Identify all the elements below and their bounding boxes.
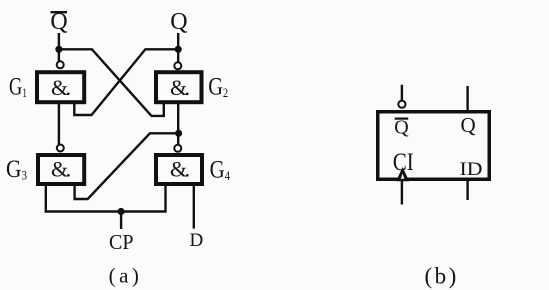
wire U1 Q output [466, 86, 468, 110]
junction dot on Q line [175, 46, 182, 53]
gate G4 output bubble [174, 145, 181, 152]
svg-text:G3: G3 [6, 156, 27, 183]
wire CP net [46, 185, 166, 212]
svg-text:&: & [170, 75, 187, 100]
junction dot on Q-bar line [55, 46, 62, 53]
svg-text:Q: Q [170, 9, 187, 35]
wire CP stub down [120, 212, 122, 230]
svg-text:&: & [170, 157, 187, 182]
gate G4 [156, 155, 202, 184]
wire U1 clock input [401, 181, 403, 205]
junction dot on CP line [118, 208, 125, 215]
svg-text:Q: Q [461, 113, 476, 137]
U1 Q-bar output bubble [398, 101, 405, 108]
gate G2 output bubble [174, 62, 181, 69]
svg-text:&: & [51, 75, 68, 100]
wire Q-bar to G2 input (cross-coupling) [59, 49, 164, 116]
gate G1 output bubble [57, 61, 64, 68]
svg-text:G4: G4 [210, 157, 231, 184]
svg-text:(a): (a) [109, 264, 139, 288]
wire U1 data input [466, 181, 468, 200]
wire U1 Q-bar output [401, 85, 403, 100]
label U1 Q-bar pin [394, 117, 409, 139]
svg-text:D: D [190, 230, 204, 251]
svg-text:CI: CI [393, 149, 414, 176]
wire D input [193, 185, 195, 229]
latch symbol U1 box [378, 112, 490, 180]
svg-text:ID: ID [460, 159, 483, 180]
wire G4 output to G3 input (feedback) [75, 133, 179, 199]
wire Q vertical [177, 33, 179, 62]
node Q-bar label [50, 9, 67, 35]
wire G4 output to G2 input [177, 103, 179, 145]
svg-text:&: & [51, 157, 68, 182]
gate G3 output bubble [57, 145, 64, 152]
gate G2 [156, 72, 202, 102]
svg-text:G1: G1 [9, 74, 27, 101]
gate G3 [38, 155, 84, 184]
wire Q-bar vertical [58, 33, 60, 61]
U1 clock edge triangle [396, 167, 409, 181]
svg-text:CP: CP [109, 230, 134, 254]
wire Q to G1 input (cross-coupling) [74, 49, 178, 115]
wire G3 output to G1 input [58, 103, 60, 144]
svg-text:(b): (b) [425, 264, 457, 289]
svg-text:G2: G2 [208, 74, 228, 101]
svg-text:Q: Q [394, 117, 409, 139]
junction dot on G4 output line [175, 130, 182, 137]
gate G1 [37, 72, 84, 102]
